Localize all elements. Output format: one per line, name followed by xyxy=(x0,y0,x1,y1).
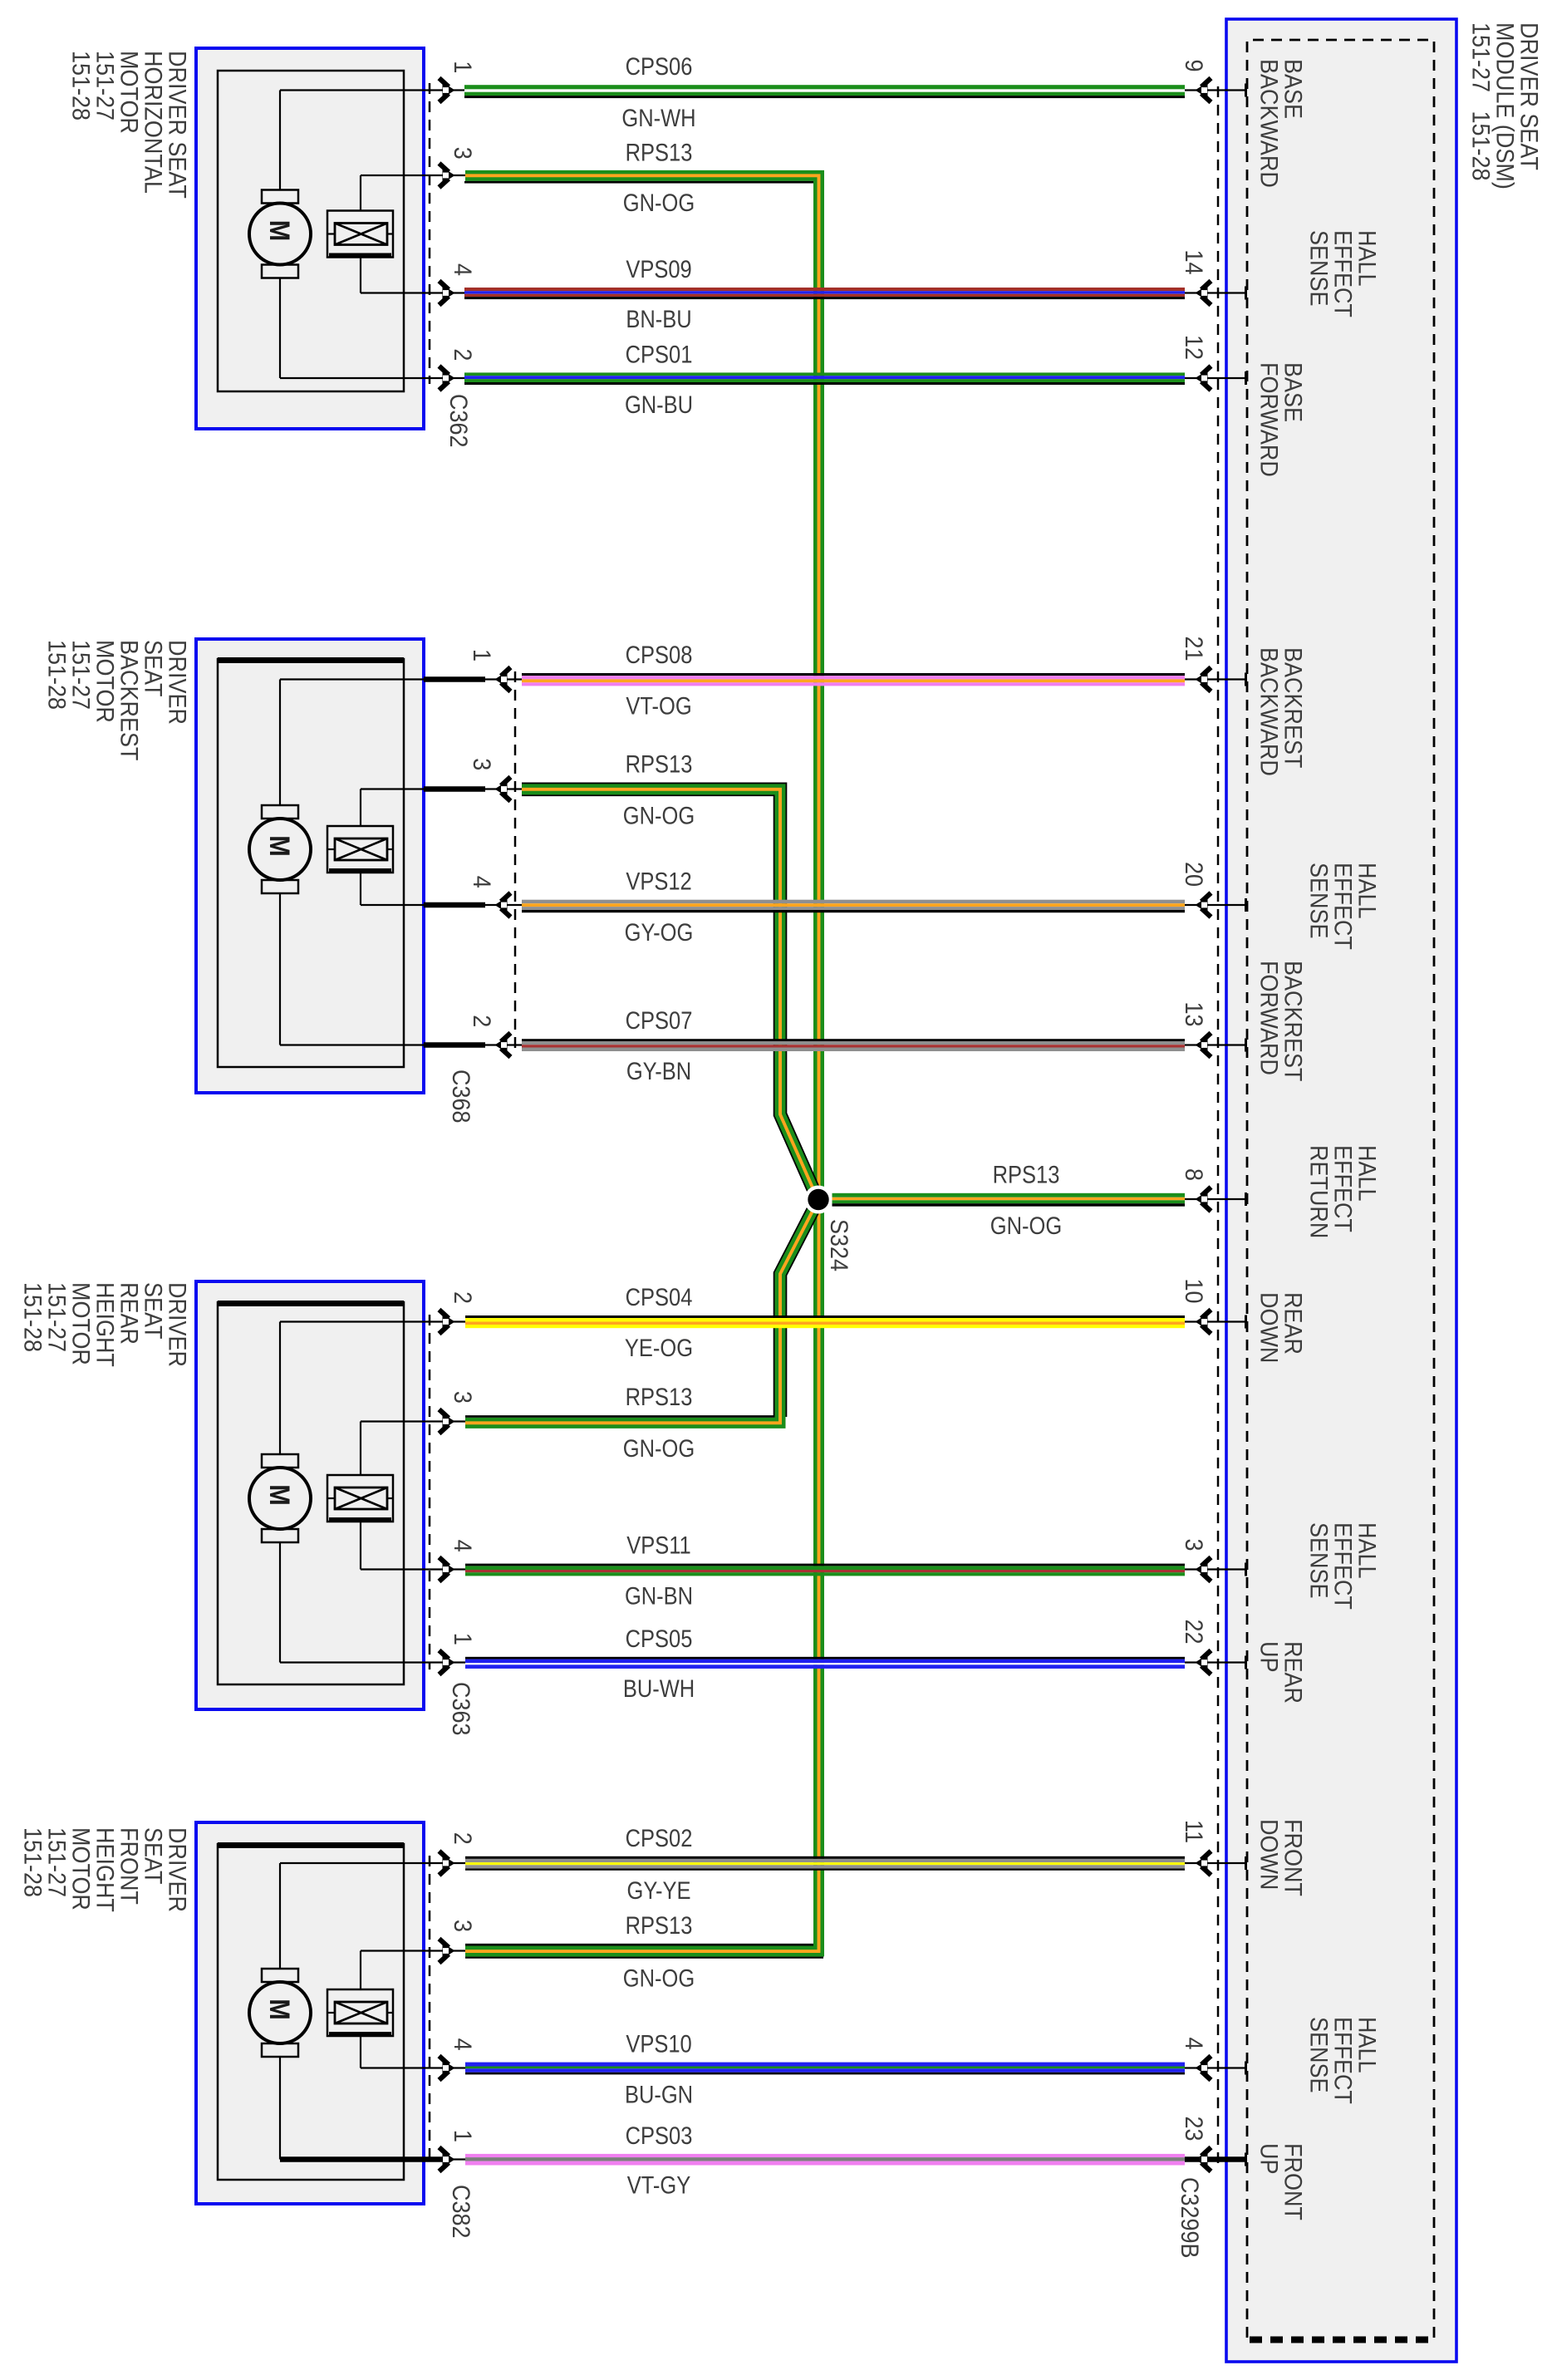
svg-text:BACKWARD: BACKWARD xyxy=(1255,647,1283,776)
connector arrow DSM pin 23 xyxy=(1196,2147,1211,2171)
svg-text:UP: UP xyxy=(1255,2143,1283,2174)
svg-text:11: 11 xyxy=(1180,1820,1208,1843)
svg-text:GN-BN: GN-BN xyxy=(625,1581,693,1609)
svg-text:GN-WH: GN-WH xyxy=(621,104,695,131)
svg-text:BU-GN: BU-GN xyxy=(625,2080,693,2107)
connector arrow M4 pin 3 xyxy=(440,1939,455,1963)
svg-text:CPS08: CPS08 xyxy=(626,641,693,668)
svg-text:2: 2 xyxy=(449,1832,477,1845)
svg-text:M: M xyxy=(264,220,296,241)
svg-text:23: 23 xyxy=(1180,2117,1208,2142)
svg-text:YE-OG: YE-OG xyxy=(625,1334,693,1361)
connector arrow DSM pin 22 xyxy=(1196,1650,1211,1674)
connector C363 dashed line xyxy=(429,1315,431,1669)
svg-text:CPS03: CPS03 xyxy=(626,2122,693,2149)
DSM pin 10 stub xyxy=(1185,1320,1245,1322)
svg-text:RPS13: RPS13 xyxy=(626,1911,693,1939)
svg-text:RPS13: RPS13 xyxy=(993,1160,1060,1188)
svg-text:FORWARD: FORWARD xyxy=(1255,362,1283,477)
svg-text:2: 2 xyxy=(468,1015,496,1027)
svg-text:1: 1 xyxy=(449,2130,477,2142)
svg-text:4: 4 xyxy=(449,2038,477,2051)
connector C382 dashed line xyxy=(429,1856,431,2166)
connector arrow M3 pin 3 xyxy=(440,1409,455,1433)
connector arrow DSM pin 3 xyxy=(1196,1557,1211,1581)
connector arrow DSM pin 9 xyxy=(1196,78,1211,102)
svg-text:SENSE: SENSE xyxy=(1304,230,1333,306)
svg-text:1: 1 xyxy=(449,1633,477,1645)
svg-text:VT-OG: VT-OG xyxy=(626,691,691,719)
svg-text:M: M xyxy=(264,1484,296,1505)
svg-text:12: 12 xyxy=(1180,335,1208,360)
svg-text:151-28: 151-28 xyxy=(42,640,71,710)
connector C368 dashed line xyxy=(514,671,517,1052)
svg-text:3: 3 xyxy=(449,1920,477,1932)
connector arrow M4 pin 4 xyxy=(440,2056,455,2080)
DSM pin 4 stub xyxy=(1185,2067,1245,2068)
svg-text:GN-OG: GN-OG xyxy=(623,1434,695,1462)
motor box M1: DRIVER SEAT HORIZONTAL MOTOR xyxy=(196,48,424,429)
DSM pin 21 stub xyxy=(1185,678,1245,680)
M1 motor circle M xyxy=(249,204,311,265)
M4 internal wires xyxy=(279,1863,281,1969)
connector arrow DSM pin 20 xyxy=(1196,893,1211,917)
M2 internal wires xyxy=(279,680,281,806)
svg-text:GN-OG: GN-OG xyxy=(623,802,695,829)
svg-text:SENSE: SENSE xyxy=(1304,863,1333,938)
svg-text:151-27 151-28: 151-27 151-28 xyxy=(1466,22,1495,180)
svg-text:4: 4 xyxy=(449,263,477,276)
DSM pin 14 stub xyxy=(1185,292,1245,293)
svg-text:3: 3 xyxy=(468,758,496,770)
wire CPS04 YE-OG pin2-M3 to pin10-DSM xyxy=(465,1315,1185,1318)
wire RPS13 left bus lower GN-OG (junction S324 to M3 pin3) xyxy=(780,1206,816,1418)
svg-text:CPS04: CPS04 xyxy=(626,1283,693,1310)
svg-text:2: 2 xyxy=(449,1291,477,1304)
DSM pin 3 stub xyxy=(1185,1568,1245,1570)
M2 inner frame xyxy=(218,659,404,1067)
wire VPS12 GY-OG pin4-M2 to pin20-DSM xyxy=(522,900,1185,904)
svg-text:3: 3 xyxy=(1180,1539,1208,1551)
connector arrow M1 pin 4 xyxy=(440,281,455,305)
wire CPS08 VT-OG pin1-M2 to pin21-DSM xyxy=(522,673,1185,676)
M2 motor terminal rects xyxy=(262,805,298,819)
svg-text:C382: C382 xyxy=(447,2185,475,2238)
svg-text:21: 21 xyxy=(1180,637,1208,661)
connector arrow M2 pin 1 xyxy=(495,667,511,691)
connector arrow M2 pin 4 xyxy=(495,893,511,917)
connector arrow M1 pin 3 xyxy=(440,164,455,188)
wire CPS01 GN-BU pin2-M1 to pin12-DSM xyxy=(464,372,1185,376)
wire RPS13 GN-OG pin3-M1 black edge xyxy=(464,181,813,184)
svg-text:BN-BU: BN-BU xyxy=(626,305,691,332)
svg-text:22: 22 xyxy=(1180,1620,1208,1645)
svg-text:1: 1 xyxy=(449,61,477,73)
svg-text:20: 20 xyxy=(1180,862,1208,887)
connector arrow M3 pin 2 xyxy=(440,1310,455,1334)
connector arrow DSM pin 21 xyxy=(1196,667,1211,691)
svg-text:GN-OG: GN-OG xyxy=(623,1964,695,1991)
motor box M4: DRIVER SEAT FRONT HEIGHT MOTOR xyxy=(196,1822,424,2204)
connector arrow DSM pin 11 xyxy=(1196,1851,1211,1876)
svg-text:DOWN: DOWN xyxy=(1255,1292,1283,1363)
svg-text:CPS05: CPS05 xyxy=(626,1625,693,1652)
svg-text:VT-GY: VT-GY xyxy=(627,2171,690,2199)
wire CPS06 GN-WH pin1-M1 to pin9-DSM xyxy=(464,85,1185,89)
svg-text:3: 3 xyxy=(449,1391,477,1404)
M1 internal wires xyxy=(279,91,281,190)
svg-text:M: M xyxy=(264,1999,296,2019)
svg-text:2: 2 xyxy=(449,348,477,361)
DSM pin 13 stub xyxy=(1185,1044,1245,1045)
connector arrow M3 pin 1 xyxy=(440,1650,455,1674)
DSM internal dashed boundary xyxy=(1247,40,1434,2338)
svg-text:SENSE: SENSE xyxy=(1304,2017,1333,2092)
junction S324 splice dot xyxy=(808,1189,828,1210)
connector arrow DSM pin 10 xyxy=(1196,1310,1211,1334)
M1 position sensor crossed box xyxy=(327,211,393,258)
M1 inner frame xyxy=(218,71,404,391)
svg-text:10: 10 xyxy=(1180,1279,1208,1304)
wire RPS13 GN-OG pin3-M3 black edge xyxy=(465,1415,775,1418)
wire RPS13 left bus upper GN-OG (M2 pin3 into junction S324) xyxy=(522,789,816,1194)
M2 motor circle M xyxy=(249,819,311,880)
svg-text:S324: S324 xyxy=(825,1219,853,1271)
svg-text:4: 4 xyxy=(449,1540,477,1552)
svg-text:CPS07: CPS07 xyxy=(626,1006,693,1034)
svg-text:GY-BN: GY-BN xyxy=(626,1057,691,1084)
DSM pin 8 stub xyxy=(1185,1198,1245,1200)
connector C3299B dashed line xyxy=(1217,86,1220,2171)
motor box M3: DRIVER SEAT REAR HEIGHT MOTOR xyxy=(196,1281,424,1709)
M3 internal wires xyxy=(279,1322,281,1455)
svg-text:BU-WH: BU-WH xyxy=(623,1674,695,1702)
svg-text:SENSE: SENSE xyxy=(1304,1522,1333,1598)
svg-text:GY-YE: GY-YE xyxy=(627,1876,691,1904)
svg-text:CPS06: CPS06 xyxy=(626,52,693,80)
DSM internal dashed boundary thick bottom edge xyxy=(1250,2337,1434,2343)
connector arrow M3 pin 4 xyxy=(440,1557,455,1581)
svg-text:FORWARD: FORWARD xyxy=(1255,961,1283,1075)
svg-text:GN-OG: GN-OG xyxy=(623,189,695,216)
wire RPS13 GN-OG junction S324 to pin8-DSM xyxy=(832,1193,1186,1197)
svg-text:C3299B: C3299B xyxy=(1176,2177,1204,2259)
wire RPS13 GN-OG pin3-M4 black edges xyxy=(465,1944,813,1946)
M4 motor terminal rects xyxy=(262,1969,298,1982)
DSM module box: DRIVER SEAT MODULE (DSM) xyxy=(1226,19,1456,2362)
svg-text:VPS11: VPS11 xyxy=(626,1532,690,1559)
wire CPS02 GY-YE pin2-M4 to pin11-DSM xyxy=(465,1856,1185,1859)
wire VPS10 BU-GN pin4-M4 to pin4-DSM xyxy=(465,2063,1185,2067)
M3 motor circle M xyxy=(249,1468,311,1529)
DSM pin 23 stub xyxy=(1185,2156,1245,2162)
DSM pin 9 stub xyxy=(1185,89,1245,91)
svg-text:151-28: 151-28 xyxy=(66,51,95,120)
DSM pin 12 stub xyxy=(1185,377,1245,379)
svg-text:4: 4 xyxy=(1180,2038,1208,2050)
wire RPS13 main bus GN-OG (M1 pin3 down to M4 pin3) xyxy=(465,175,819,1951)
svg-text:VPS12: VPS12 xyxy=(626,868,691,895)
connector arrow DSM pin 14 xyxy=(1196,281,1211,305)
svg-text:CPS02: CPS02 xyxy=(626,1824,693,1851)
svg-text:GN-OG: GN-OG xyxy=(990,1212,1062,1239)
M3 motor terminal rects xyxy=(262,1454,298,1468)
svg-text:14: 14 xyxy=(1180,250,1208,275)
M1 motor terminal rects xyxy=(262,190,298,204)
svg-text:151-28: 151-28 xyxy=(18,1282,47,1352)
svg-text:GN-BU: GN-BU xyxy=(625,391,693,418)
svg-text:RPS13: RPS13 xyxy=(626,139,693,166)
svg-text:DOWN: DOWN xyxy=(1255,1819,1283,1890)
svg-text:VPS10: VPS10 xyxy=(626,2030,691,2058)
DSM pin 20 stub xyxy=(1185,904,1245,906)
svg-text:BACKWARD: BACKWARD xyxy=(1255,59,1283,188)
svg-text:RETURN: RETURN xyxy=(1304,1145,1333,1238)
svg-text:1: 1 xyxy=(468,649,496,661)
svg-text:RPS13: RPS13 xyxy=(626,750,693,777)
svg-text:C363: C363 xyxy=(447,1682,475,1735)
svg-text:CPS01: CPS01 xyxy=(626,340,693,367)
svg-text:13: 13 xyxy=(1180,1002,1208,1027)
connector arrow DSM pin 4 xyxy=(1196,2056,1211,2080)
M3 inner frame xyxy=(218,1302,404,1684)
M4 motor circle M xyxy=(249,1982,311,2043)
svg-text:4: 4 xyxy=(468,876,496,888)
svg-text:C368: C368 xyxy=(447,1070,475,1123)
connector arrow M4 pin 2 xyxy=(440,1851,455,1876)
M4 inner frame xyxy=(218,1844,404,2180)
connector arrow DSM pin 8 xyxy=(1196,1188,1211,1212)
svg-text:9: 9 xyxy=(1180,60,1208,72)
svg-text:C362: C362 xyxy=(444,394,473,447)
M3 position sensor crossed box xyxy=(327,1475,393,1522)
motor box M2: DRIVER SEAT BACKREST MOTOR xyxy=(196,639,424,1093)
junction S324 white halo xyxy=(804,1186,832,1214)
connector arrow M2 pin 3 xyxy=(495,777,511,801)
connector arrow DSM pin 13 xyxy=(1196,1033,1211,1057)
svg-text:VPS09: VPS09 xyxy=(626,255,691,283)
M2 position sensor crossed box xyxy=(327,826,393,873)
connector arrow M2 pin 2 xyxy=(495,1033,511,1057)
svg-text:M: M xyxy=(264,835,296,856)
wire CPS07 GY-BN pin2-M2 to pin13-DSM xyxy=(522,1039,1185,1041)
connector arrow M4 pin 1 xyxy=(440,2147,455,2171)
svg-text:RPS13: RPS13 xyxy=(626,1383,693,1410)
svg-text:151-28: 151-28 xyxy=(18,1827,47,1897)
svg-text:UP: UP xyxy=(1255,1641,1283,1672)
connector arrow DSM pin 12 xyxy=(1196,366,1211,391)
wire VPS09 BN-BU pin4-M1 to pin14-DSM xyxy=(464,288,1185,291)
wire CPS03 VT-GY pin1-M4 to pin23-DSM xyxy=(465,2154,1185,2157)
M4 position sensor crossed box xyxy=(327,1989,393,2036)
svg-text:8: 8 xyxy=(1180,1168,1208,1181)
DSM pin 11 stub xyxy=(1185,1862,1245,1864)
connector arrow M1 pin 1 xyxy=(440,78,455,102)
svg-text:3: 3 xyxy=(449,147,477,160)
svg-text:GY-OG: GY-OG xyxy=(625,918,694,946)
wire CPS05 BU-WH pin1-M3 to pin22-DSM xyxy=(465,1657,1185,1660)
connector arrow M1 pin 2 xyxy=(440,366,455,391)
connector C362 dashed line xyxy=(429,83,431,384)
wire VPS11 GN-BN pin4-M3 to pin3-DSM xyxy=(465,1564,1185,1566)
DSM pin 22 stub xyxy=(1185,1661,1245,1663)
